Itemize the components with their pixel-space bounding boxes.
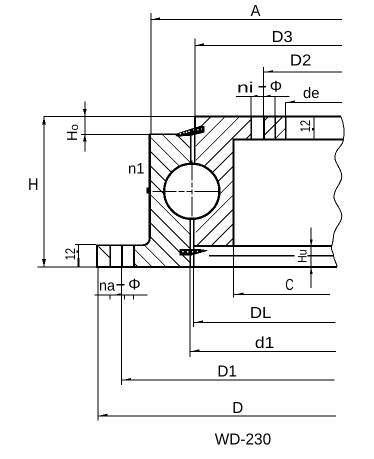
svg-text:Φ: Φ bbox=[128, 276, 140, 293]
gap line right upper bbox=[194, 135, 196, 167]
DL extension line lower part bbox=[193, 268, 195, 327]
plate vertical outer ring OD bbox=[285, 117, 287, 140]
dimension Ho line bbox=[83, 102, 87, 152]
top seal (black wedge) bbox=[175, 126, 205, 137]
flange top edge extension for 12 dim bbox=[75, 244, 96, 246]
dimension na line bbox=[95, 293, 148, 299]
flange hole left edge bbox=[109, 245, 111, 267]
flange hole right edge bbox=[121, 245, 123, 267]
ball horizontal centerline bbox=[153, 190, 224, 192]
svg-text:D2: D2 bbox=[290, 53, 312, 70]
inner ring top surface (extended left) bbox=[81, 133, 149, 135]
svg-text:de: de bbox=[303, 85, 320, 102]
svg-text:d1: d1 bbox=[255, 335, 275, 352]
svg-text:12: 12 bbox=[297, 120, 313, 133]
d1 extension line lower part bbox=[189, 268, 191, 357]
svg-text:Hu: Hu bbox=[295, 249, 309, 263]
plate bottom edge bbox=[234, 138, 344, 140]
dimension DL line bbox=[194, 320, 336, 322]
gap line left upper bbox=[190, 135, 192, 167]
dimension 12 left (flange thickness) bbox=[76, 245, 79, 268]
D extension line bbox=[97, 267, 99, 421]
dimension D2 line bbox=[264, 70, 342, 72]
ni-phi dash bbox=[258, 86, 266, 88]
flange left edge bbox=[96, 245, 98, 267]
top seal speckles bbox=[180, 128, 203, 134]
plate vertical at de seat bbox=[274, 117, 276, 140]
grease nipple n1 bbox=[146, 188, 150, 194]
svg-text:ni: ni bbox=[237, 80, 254, 97]
svg-text:D3: D3 bbox=[272, 29, 293, 46]
ball bbox=[164, 164, 219, 219]
gap line right lower / DL extension upper part bbox=[193, 216, 195, 268]
bottom surface line (inner ring bottom, extended left and right) bbox=[37, 266, 96, 268]
D1 extension line bbox=[120, 267, 122, 385]
dimension A line bbox=[151, 17, 342, 19]
plate hole left edge bbox=[250, 117, 252, 140]
dimension 12 right (plate thickness) bbox=[312, 117, 315, 139]
break wavy line right side bbox=[331, 117, 343, 267]
bottom plate mid line bbox=[209, 255, 295, 257]
inner ring hatching (45 deg, top-left to bottom-right) bbox=[36, 64, 290, 335]
svg-text:WD-230: WD-230 bbox=[215, 432, 272, 449]
bolt hole in top plate (white) bbox=[252, 116, 263, 141]
dimension Hu line bbox=[310, 228, 313, 289]
dimension D1 line bbox=[121, 378, 334, 380]
flange cell single hatch line bbox=[98, 246, 110, 258]
svg-text:D: D bbox=[232, 400, 243, 417]
top surface line (outer ring top, extended left) bbox=[44, 116, 195, 118]
dimension A extension line bbox=[150, 13, 152, 134]
inner ring left edge bbox=[149, 134, 151, 238]
bottom seal (black wedge) bbox=[179, 249, 208, 256]
dimension C line bbox=[234, 293, 330, 295]
dimension D2 extension line bbox=[263, 67, 265, 117]
svg-text:DL: DL bbox=[250, 305, 272, 322]
de extension line bbox=[285, 102, 287, 116]
svg-text:H: H bbox=[28, 175, 39, 194]
C extension line through bottom plate bbox=[233, 247, 235, 298]
svg-text:na: na bbox=[99, 277, 116, 294]
ball vertical centerline bbox=[191, 161, 193, 223]
svg-text:A: A bbox=[251, 3, 261, 20]
svg-text:D1: D1 bbox=[217, 363, 237, 380]
outer ring bottom / bottom plate top bbox=[193, 245, 331, 247]
dimension ni line bbox=[236, 95, 289, 97]
dimension H line bbox=[42, 117, 46, 267]
svg-text:Φ: Φ bbox=[270, 79, 282, 96]
raceway gap white slot lower bbox=[191, 210, 193, 268]
dimension D line bbox=[98, 414, 336, 416]
dimension de line bbox=[286, 100, 342, 102]
dimension D3 extension line bbox=[194, 39, 196, 117]
dimension D3 line bbox=[195, 43, 342, 45]
bottom seal speckles bbox=[182, 251, 198, 253]
outer ring hatching (45 deg, bottom-left to top-right) bbox=[160, 0, 330, 340]
flange top edge bbox=[96, 244, 143, 246]
ni extension stubs above plate bbox=[250, 97, 252, 117]
outer ring inner face vertical bbox=[233, 139, 235, 247]
raceway gap white slot upper bbox=[192, 134, 194, 179]
svg-text:12: 12 bbox=[62, 248, 78, 261]
dimension d1 line bbox=[190, 349, 336, 351]
outer ring bore edge above seal bbox=[194, 117, 196, 128]
na-phi dash bbox=[117, 284, 125, 286]
flange inner vertical bbox=[133, 245, 135, 267]
plate hole right edge bbox=[263, 117, 265, 140]
gap line left lower / d1 extension upper part bbox=[189, 216, 191, 268]
svg-text:C: C bbox=[285, 277, 294, 294]
svg-text:n1: n1 bbox=[128, 161, 145, 178]
fillet flange to body bbox=[143, 239, 150, 246]
